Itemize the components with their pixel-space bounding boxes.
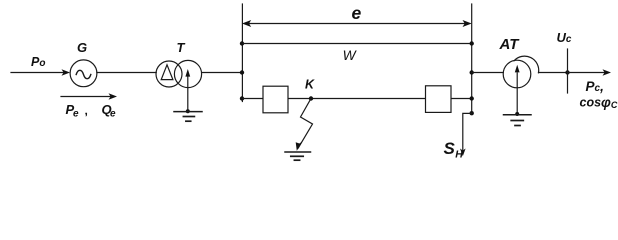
node: Uc bus — [565, 70, 569, 74]
node: left bus / breaker line — [240, 96, 244, 100]
arrowhead Po into G — [62, 69, 71, 76]
line W — [242, 43, 472, 45]
node: right bus / breaker line — [470, 96, 474, 100]
T winding arrow (grounded neutral) — [187, 75, 189, 112]
svg-text:S: S — [444, 139, 456, 158]
output arrow to load — [568, 72, 607, 74]
node K — [309, 96, 313, 100]
autotransformer AT circle — [503, 60, 531, 88]
svg-text:W: W — [343, 48, 358, 63]
generator G circle — [70, 60, 97, 87]
svg-text:AT: AT — [499, 36, 521, 53]
svg-text:G: G — [77, 40, 87, 55]
arrow Pe Qe — [61, 96, 112, 98]
sine wave inside G — [76, 70, 91, 78]
svg-text:e: e — [352, 3, 362, 23]
svg-text:e: e — [110, 109, 116, 120]
svg-text:H: H — [455, 149, 463, 161]
svg-text:,: , — [85, 104, 88, 118]
node: right bus / load branch — [470, 111, 474, 115]
breaker square B1 — [263, 86, 288, 113]
node: right bus / W line — [470, 41, 474, 45]
AT winding arrow — [516, 73, 518, 114]
node: right bus / main line — [470, 70, 474, 74]
wire right bus to AT — [472, 72, 504, 74]
svg-text:Po: Po — [31, 55, 45, 69]
wire: input line into G — [11, 72, 66, 74]
load branch wire S_H — [463, 113, 472, 152]
right bus bar — [471, 4, 473, 113]
junction dot at AT ground — [515, 112, 519, 116]
ground under AT — [504, 114, 532, 116]
svg-text:e: e — [73, 109, 79, 120]
dimension line e — [245, 23, 469, 25]
ground under T — [174, 111, 202, 113]
wire AT to Uc bus — [539, 72, 568, 74]
transformer T right circle — [174, 60, 201, 87]
node: left bus / W line — [240, 41, 244, 45]
breaker line (lower) — [242, 98, 472, 100]
svg-text:K: K — [305, 78, 315, 92]
wire G to T — [97, 72, 156, 74]
junction dot at T ground — [186, 109, 190, 113]
left bus bar — [241, 4, 243, 102]
svg-text:T: T — [177, 40, 186, 55]
AT series-winding hook — [514, 56, 539, 73]
ground at fault — [285, 151, 311, 153]
node: left bus / main line — [240, 70, 244, 74]
transformer T left circle — [156, 61, 182, 87]
wire T to left bus — [202, 72, 242, 74]
Uc bus bar — [567, 49, 569, 93]
breaker square B2 — [426, 86, 452, 113]
delta winding symbol — [161, 65, 173, 80]
lightning fault arrow — [298, 99, 312, 149]
